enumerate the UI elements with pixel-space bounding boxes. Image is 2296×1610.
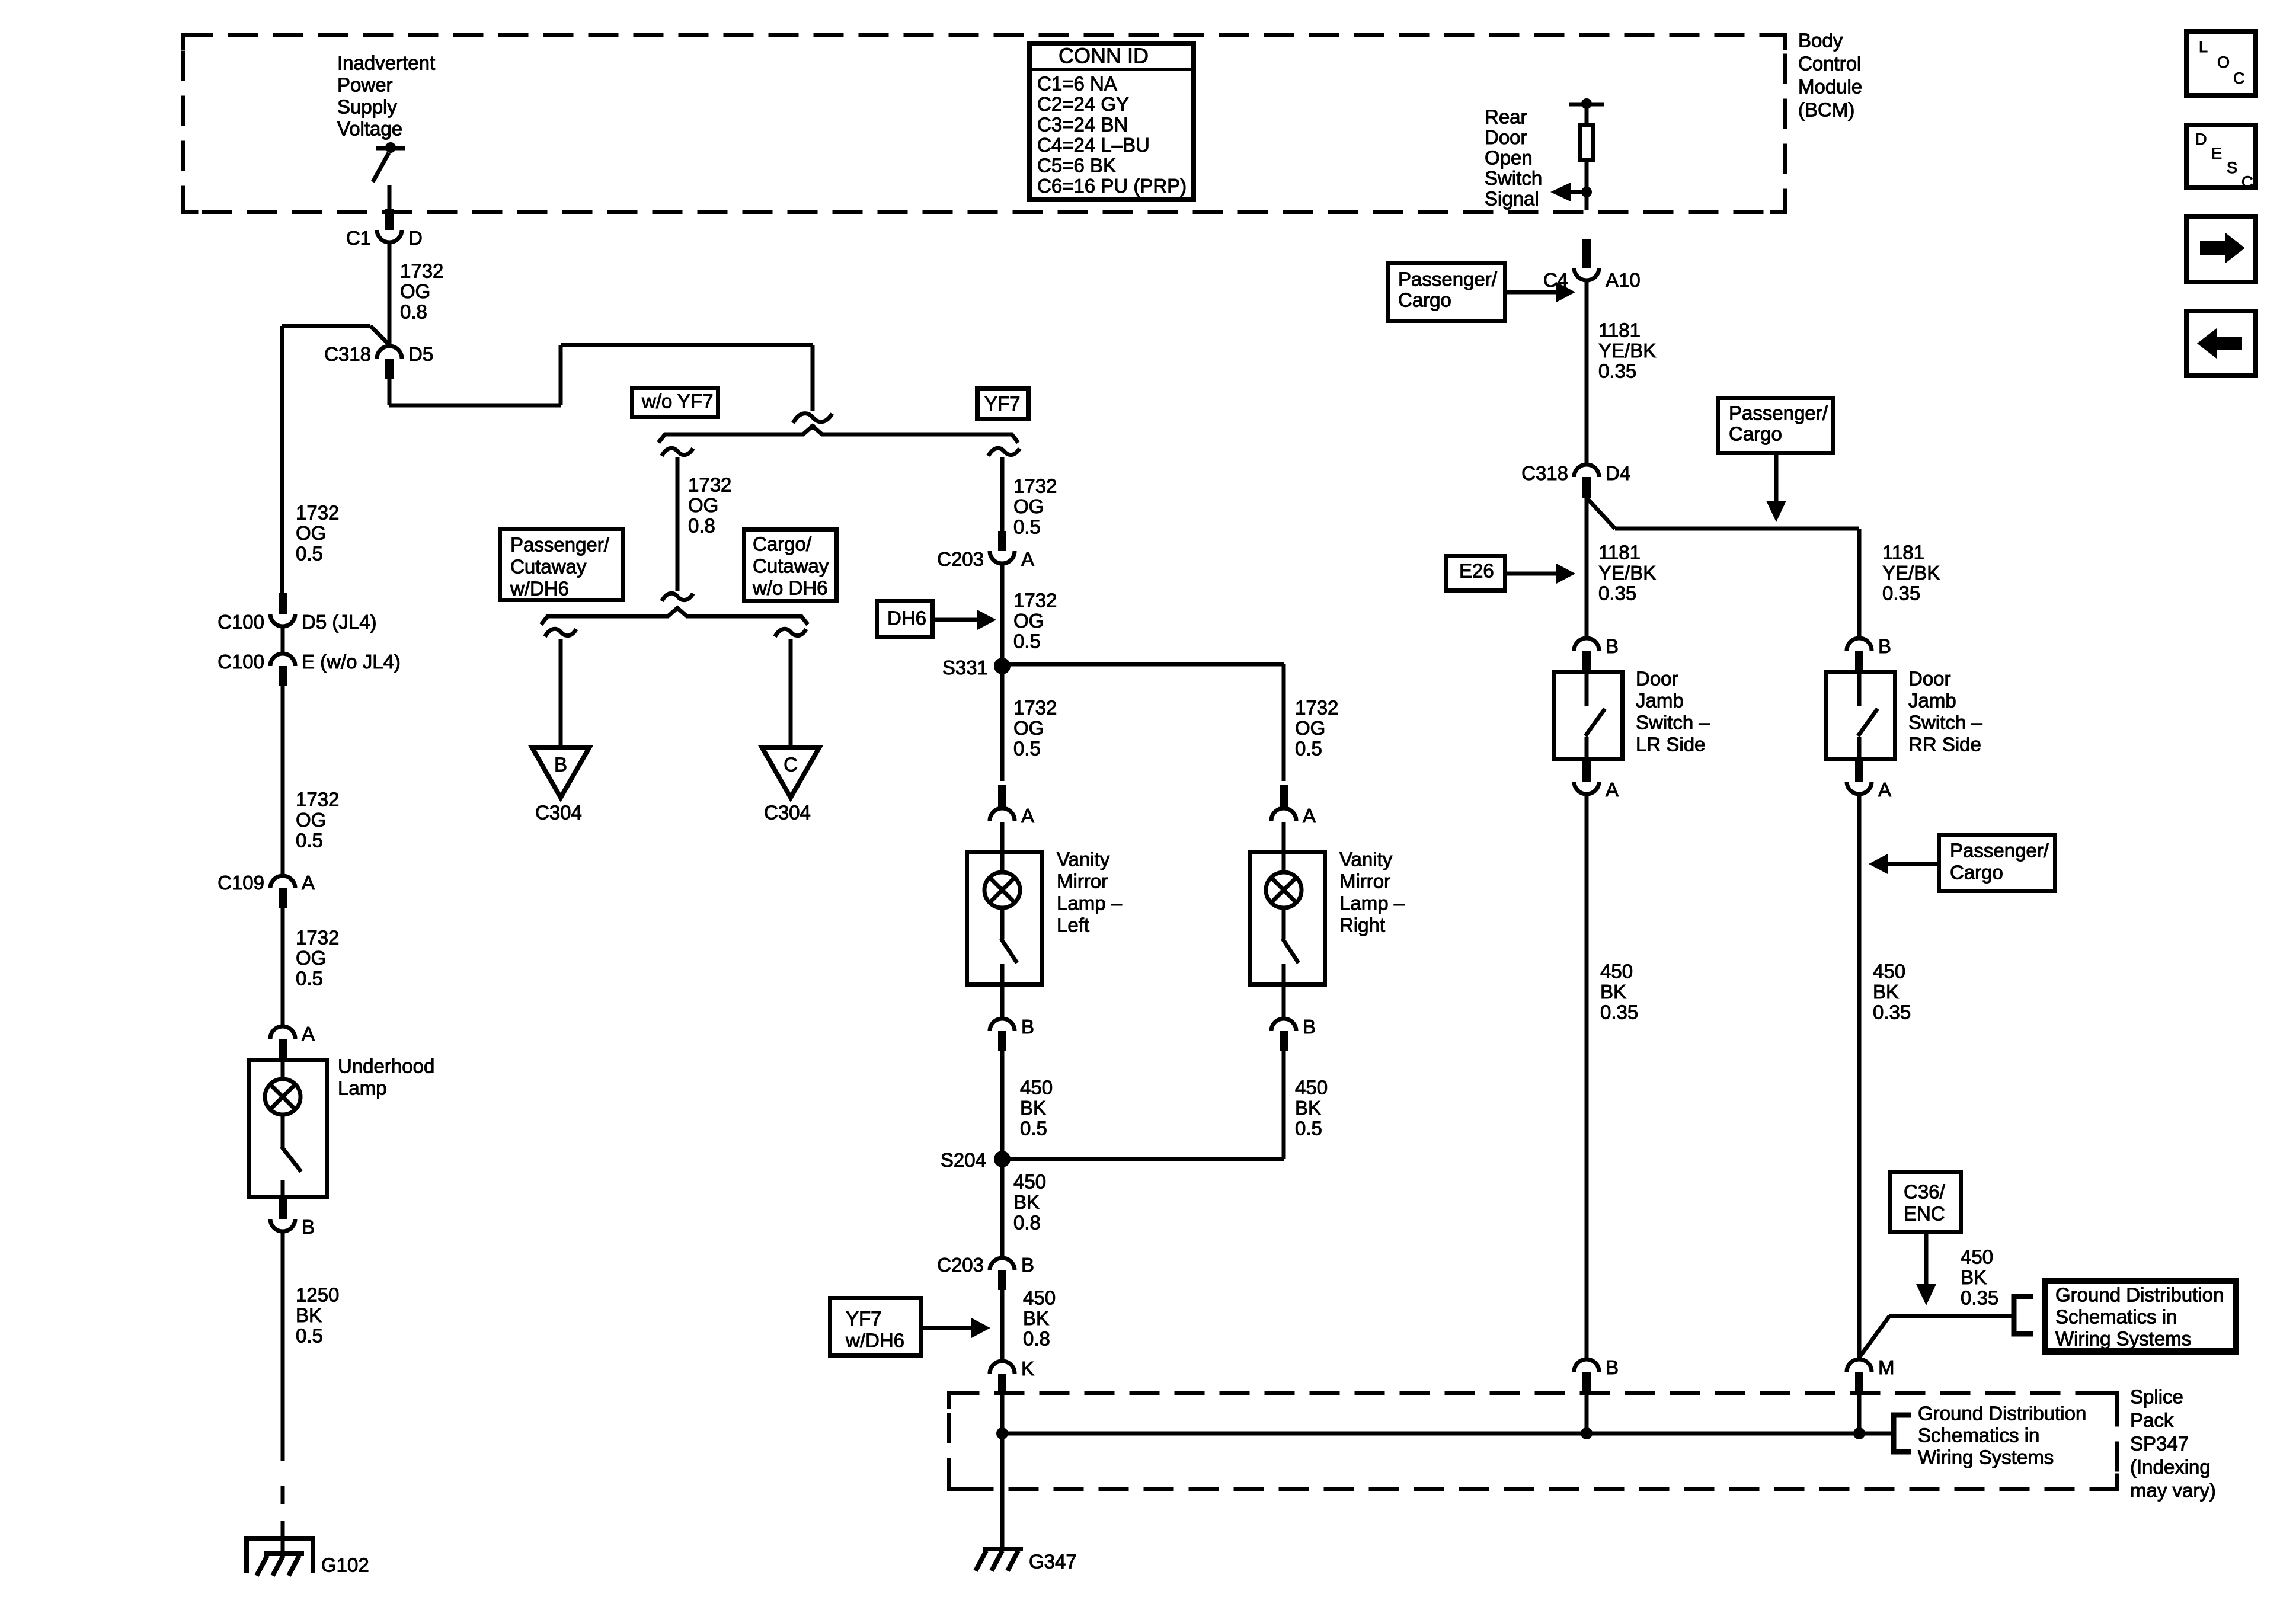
wire 450 BK 0.5	[1284, 1051, 1328, 1159]
Cargo/Cutaway w/o DH6 option box	[744, 530, 837, 601]
svg-text:Power: Power	[337, 74, 393, 96]
svg-text:C2=24 GY: C2=24 GY	[1037, 93, 1129, 115]
svg-text:Door: Door	[1908, 668, 1951, 690]
wire LR lower	[1585, 796, 1589, 1358]
svg-text:G347: G347	[1029, 1551, 1077, 1573]
svg-text:C4=24 L–BU: C4=24 L–BU	[1037, 134, 1150, 156]
wire 1732 OG 0.5	[1002, 457, 1057, 538]
svg-text:0.35: 0.35	[1961, 1287, 1998, 1309]
svg-text:C203: C203	[937, 548, 984, 570]
svg-text:1732: 1732	[296, 789, 339, 811]
connector B (vanity right)	[1271, 1016, 1316, 1051]
svg-text:Cargo/: Cargo/	[753, 533, 812, 555]
arrow YF7 w/DH6 to wire	[923, 1318, 990, 1338]
wire to splice	[1585, 1391, 1589, 1433]
wire	[559, 639, 563, 748]
wire 450 BK 0.8	[1002, 1287, 1056, 1360]
svg-text:C304: C304	[764, 802, 811, 824]
wire	[388, 185, 392, 210]
connector C109 pin A	[218, 872, 315, 908]
YF7 w/DH6 option box	[830, 1298, 922, 1356]
splice pack SP347 dashed box	[949, 1394, 2118, 1489]
svg-text:may vary): may vary)	[2130, 1480, 2216, 1502]
splice junction	[996, 1427, 1008, 1439]
power supply switch blade	[373, 153, 389, 182]
option split brace (w/o YF7 | YF7)	[658, 426, 1018, 443]
connector C100 pin D5 (JL4)	[218, 593, 376, 633]
svg-text:0.35: 0.35	[1873, 1001, 1911, 1023]
svg-text:1732: 1732	[296, 927, 339, 949]
svg-text:YE/BK: YE/BK	[1598, 340, 1656, 361]
svg-text:BK: BK	[1295, 1097, 1321, 1119]
Ground Distribution Schematics label	[1918, 1403, 2086, 1468]
wire 1732 OG 0.5	[282, 326, 339, 594]
LOC icon	[2186, 31, 2256, 95]
svg-text:B: B	[1606, 1356, 1619, 1378]
BCM dashed box corners	[183, 35, 1786, 212]
connector B (underhood lamp)	[270, 1199, 315, 1238]
signal source contact bar	[1569, 98, 1604, 109]
svg-text:(Indexing: (Indexing	[2130, 1456, 2211, 1478]
svg-text:D5: D5	[408, 343, 433, 365]
svg-text:Switch –: Switch –	[1636, 712, 1710, 734]
svg-text:Control: Control	[1798, 53, 1861, 75]
svg-text:(BCM): (BCM)	[1798, 99, 1854, 121]
signal node with arrow	[1550, 183, 1592, 201]
svg-text:1181: 1181	[1882, 542, 1924, 564]
svg-text:OG: OG	[296, 522, 326, 544]
wire	[1585, 197, 1589, 210]
w/o YF7 option box	[632, 388, 718, 417]
vanity mirror lamp - right	[1250, 849, 1405, 1017]
svg-text:Jamb: Jamb	[1636, 690, 1684, 712]
svg-text:B: B	[1606, 635, 1619, 657]
svg-text:Lamp –: Lamp –	[1339, 892, 1405, 914]
wire	[281, 628, 285, 652]
svg-text:C36/: C36/	[1904, 1181, 1946, 1203]
door jamb switch - RR side	[1827, 668, 1983, 762]
splice pack box corners	[949, 1394, 2118, 1489]
connector C4 pin A10	[1543, 239, 1641, 291]
svg-text:450: 450	[1295, 1077, 1328, 1099]
svg-text:0.35: 0.35	[1598, 360, 1636, 382]
svg-text:C304: C304	[535, 802, 582, 824]
connector A (door jamb LR)	[1574, 761, 1619, 801]
ground G347	[976, 1549, 1077, 1573]
svg-text:1732: 1732	[1013, 590, 1057, 612]
svg-text:C1=6 NA: C1=6 NA	[1037, 73, 1117, 95]
svg-text:A: A	[1021, 548, 1034, 570]
svg-text:450: 450	[1873, 961, 1905, 982]
svg-text:DH6: DH6	[887, 607, 926, 629]
Rear Door Open Switch Signal label	[1485, 106, 1542, 210]
svg-text:Mirror: Mirror	[1057, 870, 1108, 892]
Inadvertent Power Supply Voltage label	[337, 52, 435, 140]
svg-text:0.5: 0.5	[1295, 738, 1322, 760]
connector A (vanity left)	[990, 785, 1034, 827]
svg-text:YF7: YF7	[984, 393, 1021, 415]
svg-text:Schematics in: Schematics in	[2055, 1306, 2177, 1328]
svg-text:A: A	[1878, 779, 1891, 801]
off-page bracket (ground distribution)	[2014, 1297, 2033, 1334]
svg-text:Cargo: Cargo	[1729, 423, 1782, 445]
svg-text:B: B	[1021, 1254, 1034, 1276]
branch hook	[775, 629, 807, 636]
svg-text:BK: BK	[1873, 981, 1899, 1003]
resistor (rear door open switch signal)	[1580, 107, 1594, 190]
connector A (vanity right)	[1271, 785, 1316, 827]
svg-text:0.5: 0.5	[1020, 1118, 1047, 1140]
svg-text:1732: 1732	[400, 260, 443, 282]
svg-text:Rear: Rear	[1485, 106, 1527, 128]
svg-text:1250: 1250	[296, 1284, 339, 1306]
Passenger/Cargo option box (RR)	[1939, 835, 2055, 891]
wire 1181 YE/BK 0.35	[1587, 282, 1656, 463]
svg-text:Module: Module	[1798, 76, 1862, 98]
prev-page arrow icon	[2186, 311, 2256, 376]
svg-text:BK: BK	[1020, 1097, 1046, 1119]
svg-text:D5 (JL4): D5 (JL4)	[302, 611, 377, 633]
svg-text:Schematics in: Schematics in	[1918, 1425, 2039, 1446]
wire	[1282, 822, 1286, 851]
label 1181 YE/BK 0.35 (RR)	[1882, 542, 1940, 604]
svg-text:0.8: 0.8	[400, 301, 427, 323]
svg-text:L: L	[2199, 38, 2208, 56]
connector C203 pin B	[937, 1254, 1034, 1290]
svg-text:Door: Door	[1636, 668, 1678, 690]
svg-text:1732: 1732	[1013, 697, 1057, 719]
svg-text:Jamb: Jamb	[1908, 690, 1956, 712]
svg-text:BK: BK	[1013, 1191, 1040, 1213]
connector B (splice LR)	[1574, 1356, 1619, 1391]
svg-text:Body: Body	[1798, 30, 1843, 52]
svg-text:B: B	[302, 1216, 315, 1238]
svg-text:K: K	[1021, 1358, 1034, 1379]
svg-text:Mirror: Mirror	[1339, 870, 1390, 892]
wire branch to C100	[282, 326, 390, 345]
svg-text:0.8: 0.8	[1023, 1328, 1050, 1350]
connector C318 pin D5	[324, 343, 433, 379]
svg-text:1181: 1181	[1598, 319, 1641, 341]
svg-text:Signal: Signal	[1485, 188, 1539, 210]
splice junction	[1581, 1427, 1593, 1439]
svg-text:Left: Left	[1057, 914, 1089, 936]
svg-text:OG: OG	[1013, 610, 1044, 632]
svg-text:1732: 1732	[688, 474, 731, 496]
next-page arrow icon	[2186, 216, 2256, 282]
svg-text:BK: BK	[1023, 1307, 1049, 1329]
svg-text:Voltage: Voltage	[337, 118, 402, 140]
svg-text:S331: S331	[942, 657, 988, 678]
svg-text:Inadvertent: Inadvertent	[337, 52, 435, 74]
svg-text:450: 450	[1961, 1246, 1993, 1268]
svg-text:w/DH6: w/DH6	[845, 1330, 904, 1352]
label 1732 OG 0.5 (right branch)	[1295, 697, 1338, 760]
connector B (vanity left)	[990, 1016, 1034, 1051]
svg-text:Switch –: Switch –	[1908, 712, 1982, 734]
svg-text:1732: 1732	[1295, 697, 1338, 719]
wire into splice pack	[1000, 1393, 1005, 1433]
wire to splice	[1857, 1391, 1862, 1433]
svg-text:0.5: 0.5	[1013, 630, 1041, 652]
svg-text:Switch: Switch	[1485, 167, 1542, 189]
svg-text:C318: C318	[1521, 462, 1568, 484]
wire dashed to ground	[281, 1486, 285, 1554]
wire break squiggle	[662, 593, 693, 601]
power supply contact bar	[376, 142, 405, 153]
svg-text:Wiring Systems: Wiring Systems	[2055, 1328, 2191, 1350]
svg-text:C: C	[2241, 173, 2253, 191]
svg-text:0.5: 0.5	[1013, 738, 1041, 760]
connector K	[990, 1358, 1034, 1393]
arrow DH6 to wire	[935, 610, 996, 630]
svg-text:C: C	[784, 754, 798, 776]
svg-text:E: E	[2211, 145, 2222, 162]
svg-text:B: B	[1878, 635, 1891, 657]
svg-text:OG: OG	[296, 947, 326, 969]
svg-text:0.35: 0.35	[1600, 1001, 1638, 1023]
svg-text:0.5: 0.5	[296, 830, 323, 852]
svg-text:Passenger/: Passenger/	[1729, 402, 1828, 424]
svg-text:BK: BK	[1600, 981, 1626, 1003]
svg-text:450: 450	[1023, 1287, 1056, 1309]
svg-text:LR Side: LR Side	[1636, 734, 1705, 756]
connector C203 pin A	[937, 531, 1034, 570]
svg-text:Cutaway: Cutaway	[753, 555, 829, 577]
svg-text:OG: OG	[1295, 717, 1325, 739]
svg-text:C1: C1	[346, 227, 371, 249]
svg-text:450: 450	[1020, 1077, 1053, 1099]
svg-text:OG: OG	[400, 280, 430, 302]
vanity mirror lamp - left	[967, 849, 1123, 1017]
wire jog from C318 to option split	[389, 345, 813, 411]
CONN ID table	[1027, 44, 1196, 200]
svg-text:Splice: Splice	[2130, 1386, 2183, 1408]
splice S331	[942, 657, 1011, 678]
label 450 BK 0.35 (ENC)	[1961, 1246, 1998, 1309]
svg-text:Cargo: Cargo	[1950, 862, 2003, 884]
C36/ENC option box	[1891, 1172, 1961, 1233]
svg-text:Underhood: Underhood	[338, 1055, 434, 1077]
svg-text:Door: Door	[1485, 126, 1527, 148]
branch hook	[989, 448, 1020, 456]
svg-text:Right: Right	[1339, 914, 1385, 936]
connector C304 label	[764, 802, 811, 824]
ground G102	[247, 1538, 369, 1576]
svg-text:D: D	[2195, 130, 2207, 148]
svg-text:YE/BK: YE/BK	[1882, 562, 1940, 584]
arrow C36/ENC down	[1916, 1234, 1936, 1305]
svg-text:A: A	[1606, 779, 1619, 801]
svg-text:Passenger/: Passenger/	[510, 534, 610, 556]
door jamb switch - LR side	[1554, 668, 1710, 762]
svg-text:0.5: 0.5	[1295, 1118, 1322, 1140]
svg-text:1732: 1732	[1013, 475, 1057, 497]
svg-text:0.5: 0.5	[296, 543, 323, 565]
svg-text:C203: C203	[937, 1254, 984, 1276]
svg-text:w/o YF7: w/o YF7	[641, 391, 713, 412]
wire 1732 OG 0.5	[1002, 666, 1057, 781]
svg-text:A: A	[1021, 805, 1034, 827]
svg-text:C5=6 BK: C5=6 BK	[1037, 155, 1116, 177]
svg-text:0.35: 0.35	[1882, 582, 1920, 604]
svg-text:BK: BK	[296, 1304, 322, 1326]
svg-text:OG: OG	[688, 494, 718, 516]
wire 450 BK 0.35 (RR)	[1859, 796, 1911, 1358]
svg-text:Lamp: Lamp	[338, 1077, 387, 1099]
connector C304 label	[535, 802, 582, 824]
Passenger/Cargo option box	[1388, 264, 1505, 321]
svg-text:O: O	[2217, 53, 2230, 71]
splice pack bus	[1002, 1432, 1894, 1436]
svg-text:A10: A10	[1606, 269, 1641, 291]
svg-text:Open: Open	[1485, 147, 1533, 169]
svg-text:C6=16 PU (PRP): C6=16 PU (PRP)	[1037, 175, 1187, 197]
svg-text:BK: BK	[1961, 1266, 1987, 1288]
svg-text:w/o DH6: w/o DH6	[752, 577, 828, 599]
wire to right vanity branch	[1002, 664, 1284, 781]
svg-text:Lamp –: Lamp –	[1057, 892, 1123, 914]
svg-text:0.5: 0.5	[296, 968, 323, 990]
connector A (underhood lamp)	[270, 1023, 315, 1058]
svg-text:E26: E26	[1459, 560, 1494, 582]
ground wire G347	[1000, 1433, 1005, 1548]
wire	[789, 639, 793, 748]
svg-text:w/DH6: w/DH6	[510, 578, 569, 600]
wire 450 BK 0.35 (LR)	[1587, 796, 1638, 1358]
BCM name label	[1798, 30, 1862, 121]
splice S204	[941, 1149, 1284, 1171]
YF7 option box	[977, 388, 1028, 419]
svg-text:C100: C100	[218, 611, 264, 633]
wire 1732 OG 0.8	[677, 457, 731, 591]
svg-text:D4: D4	[1606, 462, 1630, 484]
E26 option box	[1447, 556, 1505, 591]
connector B (door jamb RR)	[1847, 635, 1891, 670]
svg-text:Wiring Systems: Wiring Systems	[1918, 1446, 2054, 1468]
svg-text:A: A	[302, 872, 315, 894]
svg-text:0.35: 0.35	[1598, 582, 1636, 604]
svg-text:0.8: 0.8	[1013, 1212, 1041, 1234]
DH6 option box	[877, 601, 933, 638]
svg-text:1732: 1732	[296, 502, 339, 524]
svg-text:0.5: 0.5	[1013, 516, 1041, 538]
svg-text:ENC: ENC	[1904, 1203, 1945, 1225]
wire branch to RR	[1587, 498, 1859, 636]
off-page triangle C	[762, 748, 819, 798]
svg-text:S204: S204	[941, 1149, 986, 1171]
Passenger/Cargo option box (branch)	[1718, 398, 1834, 453]
Passenger/Cutaway w/DH6 option box	[500, 529, 623, 600]
svg-text:G102: G102	[321, 1554, 369, 1576]
svg-text:OG: OG	[1013, 495, 1044, 517]
arrow Passenger/Cargo to wire	[1507, 282, 1575, 302]
svg-text:B: B	[1303, 1016, 1316, 1038]
svg-text:C109: C109	[218, 872, 264, 894]
svg-text:C: C	[2233, 69, 2245, 87]
svg-text:S: S	[2227, 159, 2237, 177]
svg-text:OG: OG	[296, 809, 326, 831]
svg-text:Passenger/: Passenger/	[1398, 268, 1498, 290]
svg-text:E (w/o JL4): E (w/o JL4)	[302, 651, 401, 673]
svg-text:450: 450	[1013, 1171, 1046, 1193]
svg-text:Pack: Pack	[2130, 1409, 2174, 1431]
wire 450 BK 0.5	[1002, 1051, 1053, 1152]
svg-text:C100: C100	[218, 651, 264, 673]
svg-text:1181: 1181	[1598, 542, 1641, 564]
svg-text:Ground Distribution: Ground Distribution	[2055, 1284, 2224, 1306]
svg-text:B: B	[554, 754, 567, 776]
svg-text:C318: C318	[324, 343, 371, 365]
svg-text:A: A	[1303, 805, 1316, 827]
branch hook	[545, 629, 577, 636]
wire 1732 OG 0.8	[389, 244, 443, 344]
wire 450 BK 0.8	[1002, 1167, 1046, 1256]
wire 1732 OG 0.5	[1002, 565, 1057, 658]
wire	[1000, 822, 1005, 851]
splice junction	[1853, 1427, 1865, 1439]
off-page bracket (splice bus)	[1894, 1415, 1911, 1452]
DESC icon	[2186, 125, 2256, 191]
connector C1 pin D	[346, 209, 423, 249]
connector C318 pin D4	[1521, 462, 1630, 498]
svg-text:450: 450	[1600, 961, 1633, 982]
svg-text:Ground Distribution: Ground Distribution	[1918, 1403, 2086, 1425]
svg-text:Cargo: Cargo	[1398, 289, 1451, 311]
svg-text:YF7: YF7	[846, 1308, 882, 1330]
svg-text:SP347: SP347	[2130, 1433, 2189, 1455]
svg-text:Vanity: Vanity	[1057, 849, 1110, 870]
svg-text:A: A	[302, 1023, 315, 1045]
wire branch to ground distribution	[1859, 1316, 2014, 1358]
connector M (splice RR)	[1847, 1356, 1895, 1391]
wire 1181 YE/BK 0.35 (LR)	[1587, 498, 1656, 636]
svg-text:B: B	[1021, 1016, 1034, 1038]
option split brace (Passenger | Cargo)	[541, 608, 808, 625]
Ground Distribution Schematics box	[2045, 1281, 2236, 1352]
wire 1732 OG 0.5	[283, 908, 339, 1025]
wire stub	[811, 424, 815, 430]
svg-text:Cutaway: Cutaway	[510, 556, 587, 578]
wire 1732 OG 0.5	[283, 686, 339, 874]
wire break squiggle	[793, 414, 832, 423]
wire 1250 BK 0.5	[283, 1233, 339, 1461]
connector C100 pin E (w/o JL4)	[218, 651, 401, 686]
off-page triangle B	[532, 748, 589, 798]
arrow Passenger/Cargo down to branch	[1766, 455, 1786, 522]
svg-text:M: M	[1878, 1356, 1895, 1378]
svg-text:RR Side: RR Side	[1908, 734, 1981, 756]
svg-text:0.8: 0.8	[688, 515, 715, 537]
Body Control Module (BCM) dashed outline	[183, 35, 1786, 212]
svg-text:D: D	[408, 227, 423, 249]
svg-text:C3=24 BN: C3=24 BN	[1037, 114, 1128, 136]
connector B (door jamb LR)	[1574, 635, 1619, 670]
svg-text:Supply: Supply	[337, 96, 397, 118]
svg-text:Passenger/: Passenger/	[1950, 840, 2049, 862]
svg-text:OG: OG	[1013, 717, 1044, 739]
branch hook	[662, 448, 693, 456]
connector A (door jamb RR)	[1847, 761, 1891, 801]
svg-text:0.5: 0.5	[296, 1325, 323, 1347]
svg-text:CONN ID: CONN ID	[1059, 44, 1149, 68]
arrow Passenger/Cargo to RR wire	[1869, 854, 1937, 874]
Splice Pack SP347 label	[2130, 1386, 2216, 1502]
svg-text:YE/BK: YE/BK	[1598, 562, 1656, 584]
arrow E26 to wire	[1507, 564, 1575, 584]
svg-text:Vanity: Vanity	[1339, 849, 1393, 870]
underhood lamp	[249, 1055, 435, 1199]
